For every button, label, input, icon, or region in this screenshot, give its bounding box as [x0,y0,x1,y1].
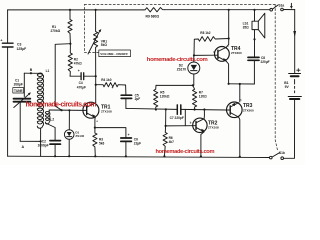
transistor TR2 ZTX108 [190,118,219,132]
current arrow at top right [290,3,293,9]
node detector junction dot [192,84,194,86]
resistor R2 47k [68,44,82,76]
svg-text:270kΩ: 270kΩ [51,29,61,33]
wire C1 bottom to coil bottom [20,140,40,142]
wire C4 to volume pot column [84,75,96,77]
node C6 rail dot [125,155,127,157]
wire left edge above C3 [7,10,9,43]
node R5 bottom dot [155,108,157,110]
wire D1 column [68,110,70,130]
resistor R5 [154,85,170,109]
wire TR2 base rail [166,125,193,127]
wire top supply rail left of R9 [8,9,143,11]
diode D2 detector [177,55,200,85]
node C4/VR1 dot [95,75,97,77]
wire battery bottom to lower right corner [284,99,295,158]
svg-text:ZS170: ZS170 [177,67,187,71]
capacitor C7 220pF [170,105,184,120]
node D2 top / TR4 base dot [193,54,195,56]
current arrow on right edge wire [293,31,296,37]
capacitor C2 1000pF [38,140,61,148]
wire C6 bottom to rail [125,142,127,156]
wire TR4 collector to rail [226,10,229,48]
resistor R9 680R in top rail [143,8,165,19]
wire D1 to ground rail [68,139,70,156]
resistor R3 emitter [93,128,105,157]
wire bottom ground rail [8,156,270,157]
wire detector node rail [156,84,193,86]
wire C7 to TR3 base [182,108,227,111]
svg-text:ZTX108: ZTX108 [208,126,219,130]
wire C2 bottom to rail [54,145,56,157]
svg-text:4k7: 4k7 [169,140,175,144]
switch S1b [270,151,285,159]
svg-text:+: + [78,69,80,73]
svg-text:homemade-circuits.com: homemade-circuits.com [147,57,208,63]
svg-text:ZTX108: ZTX108 [101,110,112,114]
node base/bias dot [61,109,63,111]
wire collector feed down to TR1 [95,85,97,103]
svg-text:S1a: S1a [279,3,285,7]
svg-text:+: + [128,133,130,137]
svg-text:5k6: 5k6 [99,142,105,146]
svg-text:2µF: 2µF [135,97,141,101]
wire C8 bottom to emitter rail [253,61,255,84]
wire L2 bottom to C2 [48,124,55,140]
capacitor C6 22uF emitter bypass [121,133,141,146]
node VR1/R4 dot [95,84,97,86]
ganged switch dashed linkage [85,4,278,150]
wire R2 bottom to C4 [70,75,81,77]
capacitor C3 125uF on left edge [0,38,26,50]
node R1/R2 junction dot [69,43,71,45]
potentiometer VR1 5k volume [88,10,107,76]
antenna terminal B wire [24,68,38,74]
transistor TR4 ZTX300 [214,44,243,61]
node R6 signal rail dot [165,108,167,110]
node R8/TR4 collector dot [228,37,230,39]
resistor R4 1k0 [96,78,126,87]
svg-text:470µF: 470µF [77,85,86,89]
svg-text:VOLUME - ON/OFF: VOLUME - ON/OFF [100,52,128,56]
node R6 top dot [165,125,167,127]
svg-text:B: B [30,68,33,72]
node TR4 emitter dot [228,83,230,85]
node TR3 collector tap dot [239,83,241,85]
wire L1 bottom to ground rail [40,128,42,156]
node R1 rail dot [69,9,71,11]
svg-text:47kΩ: 47kΩ [74,62,82,66]
svg-text:ZS140: ZS140 [75,134,84,138]
capacitor C4 470uF coupling [77,69,86,90]
svg-text:homemade-circuits.com: homemade-circuits.com [156,149,215,155]
wire R6 tap from signal rail [165,109,167,126]
svg-text:R9 680Ω: R9 680Ω [146,15,160,19]
svg-text:homemade-circuits.com: homemade-circuits.com [26,101,97,108]
resistor R1 270k [51,10,73,44]
variable capacitor C1 tuning [13,73,31,141]
svg-text:e: e [97,120,99,123]
svg-text:125µF: 125µF [17,47,27,51]
node R7 bottom dot [194,108,196,110]
wire TR3 collector [239,84,241,102]
wire TR1 collector up to VR1 column [94,102,97,104]
capacitor C5 electrolytic [112,86,141,101]
wire TR2 emitter to ground [201,132,204,157]
node D1 rail dot [68,155,70,157]
svg-text:+: + [112,86,114,90]
wire C5 bottom to signal rail corner [125,99,127,109]
svg-text:208pF: 208pF [14,82,23,86]
svg-text:220µF: 220µF [261,60,270,64]
wire TR3 emitter to ground rail [239,117,240,157]
svg-text:R8 1k2: R8 1k2 [200,31,211,35]
svg-text:c: c [240,98,242,101]
coil L1 antenna winding [37,69,49,128]
wire switch to top right corner [283,9,294,11]
wire VR1 bottom to R4 node and TR1 collector [95,76,97,85]
svg-text:ZTX500: ZTX500 [243,109,254,113]
node TR3 emitter rail dot [239,156,241,158]
resistor R8 feedback 1k [194,31,229,56]
svg-text:1000pF: 1000pF [38,144,49,148]
speaker LS1 35R [243,9,265,57]
svg-text:TUNE: TUNE [14,89,23,93]
svg-text:22µF: 22µF [134,142,141,146]
coil L2 coupling winding [45,110,54,124]
node coil bottom dot [40,140,42,142]
wire top supply rail right of R9 to switch contact [165,9,270,11]
node base/D1 dot [68,109,70,111]
svg-text:A: A [22,145,25,149]
svg-text:C7 220pF: C7 220pF [170,116,184,120]
svg-text:b: b [190,121,192,125]
svg-text:35Ω: 35Ω [243,25,250,29]
switch S1a [270,3,284,11]
wire left edge below C3 [7,48,9,157]
node TR4 collector rail dot [228,9,230,11]
wire TR1 base rail [49,109,83,111]
wire TR2 collector to signal rail [203,110,205,119]
diode D1 [64,130,84,140]
wire signal rail to C7 [126,108,177,109]
svg-text:+: + [0,38,2,42]
node C2 rail dot [54,155,56,157]
transistor TR3 ZTX500 pnp [226,98,254,117]
svg-text:5kΩ: 5kΩ [101,43,108,47]
svg-text:ZTX300: ZTX300 [231,51,242,55]
resistor R6 [163,126,174,156]
wire TR2 base tap from signal rail [184,109,186,125]
volume on/off box label [99,50,131,57]
node R6 rail dot [163,155,165,157]
wire R4 right corner down to C5 [125,85,127,94]
node TR2 emitter rail dot [200,155,202,157]
svg-text:L1: L1 [46,69,50,73]
svg-text:L2: L2 [50,118,54,122]
wire TR4 base feed [194,54,215,56]
svg-text:S1b: S1b [279,151,285,155]
node VR1 rail dot [95,9,97,11]
node TR2 collector dot [203,108,205,110]
wire TR4 emitter down [226,61,228,84]
wire node to left and down to TR1 base rail [55,44,70,111]
svg-text:R4 1k0: R4 1k0 [101,78,112,82]
capacitor C8 220uF [248,56,270,64]
transistor TR1 ZTX108 [83,102,112,123]
svg-text:120Ω: 120Ω [199,95,207,99]
node R3 rail dot [94,155,96,157]
wire emitter node to C8 column [229,83,255,85]
wire TR1 emitter down and right to C6 [95,117,126,137]
svg-text:9V: 9V [285,85,290,89]
svg-text:120kΩ: 120kΩ [160,95,170,99]
resistor R7 [193,85,208,109]
battery B1 9V [284,69,301,99]
wire right edge down to battery [294,10,296,73]
node TR1 emitter / R3 corner dot [94,127,96,129]
